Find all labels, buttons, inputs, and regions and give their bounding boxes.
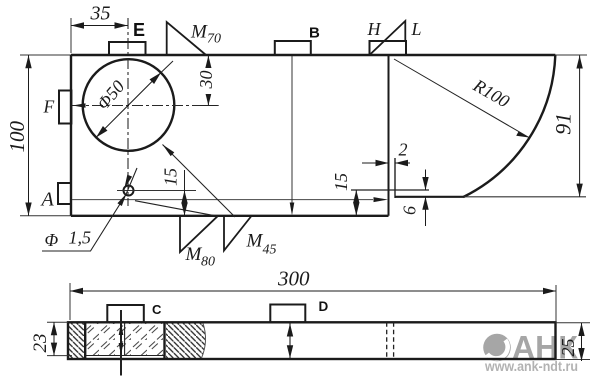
left edge (70, 55, 72, 216)
triangle M45 (224, 216, 251, 251)
dim 15 step (355, 190, 357, 216)
svg-text:300: 300 (277, 267, 310, 291)
svg-text:80: 80 (201, 255, 215, 270)
dim 30 (207, 56, 209, 106)
svg-text:1,5: 1,5 (69, 228, 92, 248)
bottom right edge (395, 196, 464, 198)
svg-text:2: 2 (399, 140, 408, 160)
mid thin line with arrow (71, 199, 373, 201)
svg-text:15: 15 (161, 168, 181, 186)
hole 1.5 (124, 186, 134, 196)
svg-text:www.ank-ndt.ru: www.ank-ndt.ru (484, 358, 578, 374)
B centerline (291, 56, 293, 208)
svg-text:E: E (133, 20, 145, 40)
notch vertical (394, 158, 396, 198)
svg-text:D: D (319, 299, 329, 314)
dim 300 (70, 290, 556, 292)
dim R100 leader (394, 59, 529, 138)
extension lines right (556, 323, 591, 360)
insert hatch light (86, 323, 164, 356)
tab F (59, 91, 71, 124)
leader M80 to hole (135, 201, 218, 217)
svg-text:23: 23 (30, 334, 51, 353)
top edge (20, 54, 587, 56)
D arrow (289, 324, 291, 359)
leader M45 to circle (163, 145, 236, 218)
svg-text:35: 35 (90, 3, 111, 25)
svg-text:Φ: Φ (45, 230, 59, 250)
svg-text:Φ50: Φ50 (93, 76, 129, 113)
triangle M80 (180, 216, 218, 252)
svg-text:6: 6 (400, 206, 420, 215)
svg-text:15: 15 (331, 173, 351, 191)
dim 25 (581, 323, 583, 361)
svg-text:45: 45 (263, 243, 277, 258)
svg-text:C: C (152, 302, 162, 317)
extension lines left (47, 322, 72, 355)
dim 23 (53, 322, 55, 355)
svg-text:M: M (246, 231, 264, 252)
svg-text:30: 30 (196, 71, 216, 90)
HL triangle (370, 21, 405, 55)
circle D50 (83, 59, 175, 151)
step edge (388, 55, 390, 216)
dim 15 hole (184, 170, 186, 191)
svg-text:A: A (40, 189, 55, 211)
tab B (275, 41, 311, 55)
svg-text:F: F (43, 97, 55, 117)
tab A (58, 183, 71, 204)
triangle M70 (167, 22, 206, 55)
svg-text:70: 70 (207, 32, 221, 47)
dim 6 (425, 170, 427, 191)
dim 91 (579, 56, 581, 197)
svg-text:100: 100 (5, 121, 29, 153)
hidden dashed lines (387, 322, 394, 359)
dim phi 1,5 callout (42, 168, 137, 251)
tab D (270, 305, 305, 323)
hatch block 1 (69, 323, 85, 358)
svg-text:91: 91 (551, 113, 576, 135)
body outline (68, 322, 556, 359)
tab C (107, 305, 144, 322)
dim D50 (96, 73, 161, 138)
svg-text:L: L (411, 19, 422, 39)
svg-text:H: H (367, 19, 382, 39)
dim 35 (71, 25, 128, 27)
notch ledge line (351, 189, 429, 191)
watermark (483, 330, 578, 375)
dim 2 (362, 162, 389, 164)
tab HL rect (370, 41, 407, 55)
centerline horizontal (72, 105, 219, 107)
hole centerline (117, 190, 196, 192)
svg-text:M: M (190, 22, 208, 43)
svg-text:M: M (185, 244, 203, 265)
tab E (109, 42, 146, 55)
svg-text:25: 25 (558, 339, 578, 357)
C arrow (120, 310, 122, 376)
svg-text:B: B (309, 25, 320, 42)
centerline vertical (127, 18, 129, 206)
dim 100 (28, 55, 30, 215)
hatch block 4 (166, 323, 206, 358)
bottom edge (20, 215, 389, 217)
arc R100 (463, 55, 555, 197)
